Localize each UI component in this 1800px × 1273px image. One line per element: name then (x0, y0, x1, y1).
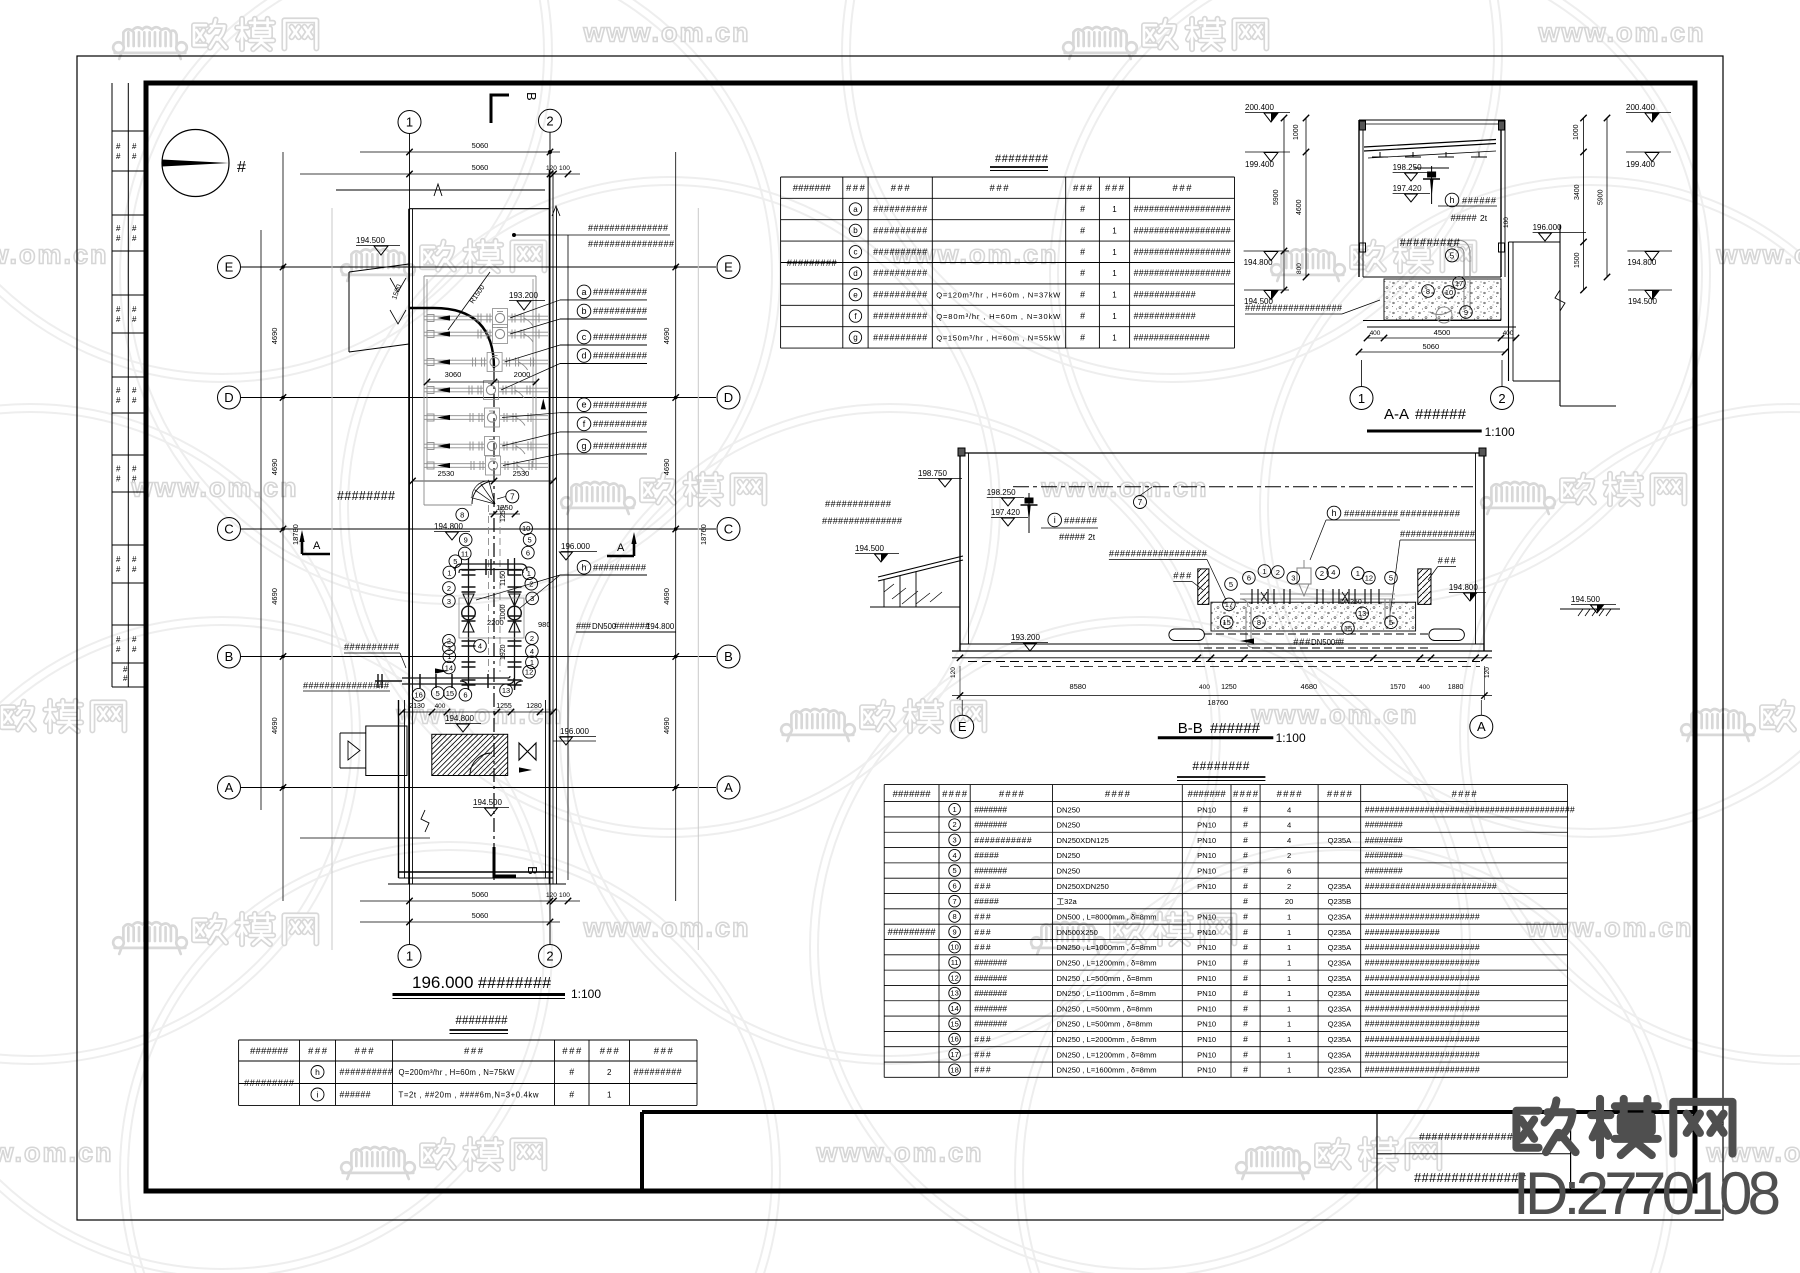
svg-text:###: ### (654, 1046, 674, 1057)
svg-text:4690: 4690 (270, 459, 279, 476)
svg-text:1250: 1250 (1221, 684, 1237, 691)
svg-text:4: 4 (1287, 836, 1291, 845)
svg-text:g: g (581, 441, 586, 451)
svg-text:#######################: ####################### (1365, 988, 1480, 998)
svg-text:PN10: PN10 (1197, 1004, 1216, 1013)
big watermark 欧模网 ID (1513, 1099, 1781, 1227)
svg-text:#: # (116, 315, 121, 324)
level 196.000 lower (553, 727, 596, 745)
svg-text:1: 1 (1287, 958, 1291, 967)
svg-text:2: 2 (953, 820, 957, 829)
pit wall anchor squares (427, 315, 434, 470)
discharge pipe lower (375, 668, 523, 690)
svg-text:h: h (315, 1067, 320, 1077)
svg-text:###########: ########### (1400, 509, 1461, 519)
svg-text:C: C (724, 522, 733, 537)
svg-text:194.500: 194.500 (855, 544, 884, 553)
svg-text:###: ### (1173, 571, 1192, 581)
svg-text:#: # (1243, 850, 1248, 860)
svg-text:8: 8 (1426, 287, 1430, 296)
svg-text:1255: 1255 (496, 703, 512, 710)
B-B left shed (822, 499, 963, 607)
svg-text:194.800: 194.800 (646, 622, 675, 631)
svg-text:################: ################ (1419, 1131, 1519, 1143)
svg-text:1280: 1280 (526, 703, 542, 710)
svg-text:196.000: 196.000 (412, 973, 473, 992)
svg-text:###############: ############### (1365, 927, 1440, 937)
svg-text:#: # (1080, 290, 1085, 300)
svg-text:################: ################ (303, 681, 390, 691)
svg-text:1: 1 (1287, 943, 1291, 952)
svg-text:Q235A: Q235A (1328, 1050, 1353, 1059)
svg-text:#: # (132, 224, 137, 233)
svg-text:196.000: 196.000 (561, 542, 590, 551)
svg-text:#: # (1243, 957, 1248, 967)
B-B ground levels right (1449, 583, 1620, 616)
svg-text:Q235A: Q235A (1328, 1066, 1353, 1075)
svg-text:1: 1 (1112, 226, 1117, 235)
svg-text:15: 15 (1223, 618, 1231, 627)
svg-text:#: # (132, 315, 137, 324)
svg-text:########: ######## (995, 153, 1049, 165)
svg-text:B-B: B-B (1178, 720, 1203, 737)
svg-text:4: 4 (1287, 805, 1291, 814)
svg-text:###: ### (891, 183, 911, 194)
svg-text:#######################: ####################### (1365, 1019, 1480, 1029)
section mark B top (491, 92, 539, 123)
svg-text:#: # (569, 1067, 574, 1077)
svg-text:##################: ################## (1245, 303, 1343, 313)
svg-text:D: D (224, 390, 233, 405)
svg-text:#######: ####### (974, 1019, 1007, 1029)
B-B sand band (1211, 602, 1416, 631)
svg-text:DN250 , L=2000mm , δ=8mm: DN250 , L=2000mm , δ=8mm (1057, 1035, 1157, 1044)
svg-text:#: # (132, 396, 137, 405)
svg-text:4: 4 (953, 851, 957, 860)
svg-text:DN250 , L=1100mm , δ=8mm: DN250 , L=1100mm , δ=8mm (1057, 989, 1156, 998)
svg-text:#######################: ####################### (1365, 1034, 1480, 1044)
svg-text:Q235A: Q235A (1328, 928, 1353, 937)
tank walls below (388, 700, 566, 884)
svg-text:##############################: ########################################… (1365, 804, 1575, 814)
svg-text:###: ### (1438, 556, 1457, 566)
A-A labels right (1573, 103, 1672, 306)
svg-text:193.200: 193.200 (1011, 633, 1040, 642)
svg-text:15: 15 (950, 1019, 958, 1028)
svg-text:c: c (582, 332, 587, 342)
svg-text:##############: ############## (1400, 529, 1476, 539)
svg-text:######: ###### (1210, 720, 1261, 737)
svg-text:www.om.cn: www.om.cn (1715, 239, 1800, 269)
svg-text:2530: 2530 (513, 469, 530, 478)
label outlet pipe level (303, 681, 390, 692)
section mark B bottom (494, 847, 540, 876)
svg-text:120: 120 (950, 667, 957, 678)
svg-text:#####: ##### (1451, 213, 1478, 223)
inner pump pit rectangle (424, 276, 536, 470)
svg-text:##########: ########## (593, 332, 648, 342)
svg-text:#: # (1243, 927, 1248, 937)
svg-text:1880: 1880 (1448, 684, 1464, 691)
svg-text:DN250 , L=500mm , δ=8mm: DN250 , L=500mm , δ=8mm (1057, 1020, 1153, 1029)
svg-text:5060: 5060 (1422, 342, 1439, 351)
svg-text:###: ### (974, 912, 991, 922)
svg-text:5: 5 (1389, 618, 1393, 627)
svg-text:8: 8 (953, 912, 957, 921)
svg-text:1000: 1000 (1573, 124, 1580, 140)
svg-text:#: # (1243, 1049, 1248, 1059)
svg-text:PN10: PN10 (1197, 836, 1216, 845)
B-B numbered bubbles (1220, 565, 1397, 635)
svg-text:www.om.cn: www.om.cn (1040, 472, 1208, 502)
svg-text:PN10: PN10 (1197, 928, 1216, 937)
svg-text:B: B (724, 649, 733, 664)
svg-text:###############: ############### (1414, 1170, 1527, 1185)
svg-text:5: 5 (953, 866, 957, 875)
svg-text:6: 6 (1247, 574, 1251, 583)
svg-text:1: 1 (1112, 333, 1117, 342)
svg-text:2: 2 (1287, 882, 1291, 891)
svg-text:1: 1 (1358, 391, 1365, 406)
svg-text:PN10: PN10 (1197, 1066, 1216, 1075)
B-B bottom dim chain (950, 655, 1492, 707)
svg-text:4680: 4680 (1301, 682, 1318, 691)
svg-text:1: 1 (1112, 269, 1117, 278)
svg-text:Q235A: Q235A (1328, 1020, 1353, 1029)
svg-text:6: 6 (1287, 867, 1291, 876)
svg-text:##########: ########## (593, 441, 648, 451)
B-B fill label (1109, 549, 1226, 601)
svg-text:#: # (116, 396, 121, 405)
svg-text:1: 1 (1287, 974, 1291, 983)
svg-text:#########: ######### (244, 1078, 295, 1089)
svg-text:Q235A: Q235A (1328, 974, 1353, 983)
numbered bubbles middle (412, 508, 538, 701)
svg-text:4: 4 (530, 647, 534, 656)
svg-text:h: h (1331, 508, 1336, 518)
svg-text:5060: 5060 (472, 163, 489, 172)
svg-text:Q235A: Q235A (1328, 958, 1353, 967)
svg-text:2: 2 (546, 113, 553, 128)
svg-text:www.om.cn: www.om.cn (582, 912, 750, 942)
svg-text:11: 11 (951, 958, 959, 967)
inner thick drawing border (146, 83, 1695, 1191)
svg-text:b: b (581, 306, 586, 316)
svg-text:###: ### (576, 621, 592, 631)
svg-text:#####: ##### (974, 896, 999, 906)
svg-text:##########: ########## (873, 311, 927, 321)
svg-text:Q235B: Q235B (1328, 897, 1352, 906)
svg-text:8: 8 (460, 510, 464, 519)
pumps a-g assemblies (424, 309, 548, 476)
svg-text:1: 1 (1287, 1035, 1291, 1044)
svg-text:DN500X250: DN500X250 (1057, 928, 1098, 937)
svg-text:##########: ########## (873, 225, 927, 235)
svg-text:4690: 4690 (270, 588, 279, 605)
svg-text:15: 15 (446, 689, 454, 698)
svg-text:1000: 1000 (1293, 124, 1300, 140)
svg-text:10: 10 (1445, 288, 1453, 297)
svg-text:12: 12 (1365, 574, 1373, 583)
svg-text:##########: ########## (1344, 509, 1399, 519)
svg-text:2: 2 (1498, 391, 1505, 406)
svg-text:###: ### (355, 1046, 375, 1057)
svg-text:400: 400 (1199, 684, 1210, 691)
svg-text:########: ######## (1365, 820, 1403, 830)
plan left dimension chain (261, 152, 332, 950)
DN500 dashed header lower plan (489, 505, 501, 672)
svg-text:#########: ######### (888, 927, 937, 938)
svg-text:#: # (132, 475, 137, 484)
svg-text:4690: 4690 (270, 717, 279, 734)
label h pumps (476, 561, 647, 609)
svg-text:#####: ##### (1059, 532, 1086, 542)
plan walls (336, 170, 560, 884)
svg-text:B: B (525, 866, 540, 875)
svg-text:###################: ################### (1134, 247, 1231, 257)
svg-text:12: 12 (525, 668, 533, 677)
B-B pump assembly (1240, 560, 1395, 648)
svg-text:#: # (1243, 973, 1248, 983)
svg-text:#######################: ####################### (1365, 1065, 1480, 1075)
plan top dimension lines 5060 (300, 141, 580, 177)
svg-text:PN10: PN10 (1197, 867, 1216, 876)
label new DN500 (576, 621, 676, 632)
svg-text:Q=80m³/hr , H=60m , N=30kW: Q=80m³/hr , H=60m , N=30kW (936, 312, 1061, 321)
svg-text:#######################: ####################### (1365, 957, 1480, 967)
svg-text:PN10: PN10 (1197, 1050, 1216, 1059)
svg-text:100: 100 (559, 165, 570, 172)
svg-text:4500: 4500 (1434, 328, 1451, 337)
svg-text:1570: 1570 (1390, 684, 1406, 691)
svg-text:18760: 18760 (699, 524, 708, 545)
svg-text:#: # (1080, 247, 1085, 257)
svg-text:5: 5 (1389, 574, 1393, 583)
svg-text:6: 6 (953, 881, 957, 890)
svg-text:####: #### (1233, 789, 1259, 800)
svg-text:DN500: DN500 (1311, 638, 1336, 647)
svg-text:###: ### (974, 1049, 991, 1059)
svg-text:B: B (225, 649, 234, 664)
svg-text:DN250 , L=1000mm , δ=8mm: DN250 , L=1000mm , δ=8mm (1057, 943, 1157, 952)
level 194.500 bottom (473, 798, 509, 816)
svg-text:100: 100 (559, 892, 570, 899)
svg-text:www.om.cn: www.om.cn (582, 17, 750, 47)
svg-text:4600: 4600 (1296, 199, 1303, 215)
svg-text:######: ###### (1462, 196, 1497, 206)
svg-text:14: 14 (445, 663, 453, 672)
level 194.800 and 196.000 at C (434, 522, 597, 560)
svg-text:#: # (116, 645, 121, 654)
svg-text:1:100: 1:100 (1485, 425, 1515, 439)
svg-text:########: ######## (1192, 759, 1249, 773)
svg-text:A: A (617, 542, 625, 554)
svg-text:#########: ######### (787, 258, 838, 269)
svg-text:193.200: 193.200 (509, 291, 538, 300)
section A-A (1359, 120, 1516, 327)
svg-text:5: 5 (1450, 251, 1455, 260)
svg-text:A: A (1477, 719, 1486, 734)
svg-text:196.000: 196.000 (1533, 223, 1562, 232)
svg-text:199.400: 199.400 (1626, 160, 1655, 169)
svg-text:########: ######## (478, 975, 551, 992)
svg-text:194.500: 194.500 (1571, 595, 1600, 604)
svg-text:6: 6 (526, 548, 530, 557)
svg-text:DN250: DN250 (1057, 867, 1081, 876)
svg-text:9: 9 (464, 535, 468, 544)
svg-text:#: # (132, 234, 137, 243)
svg-text:194.800: 194.800 (1449, 583, 1478, 592)
svg-text:DN250 , L=500mm , δ=8mm: DN250 , L=500mm , δ=8mm (1057, 974, 1153, 983)
svg-text:PN10: PN10 (1197, 1035, 1216, 1044)
svg-text:1250: 1250 (500, 506, 507, 522)
svg-text:17: 17 (1455, 279, 1463, 288)
plan view: grid lines (218, 256, 741, 800)
svg-text:#: # (1243, 942, 1248, 952)
svg-text:#: # (1080, 332, 1085, 342)
svg-text:#: # (116, 305, 121, 314)
svg-text:###: ### (600, 1046, 620, 1057)
svg-text:#: # (1243, 988, 1248, 998)
svg-text:###: ### (1073, 183, 1093, 194)
svg-text:2: 2 (546, 949, 553, 964)
svg-text:############: ############ (825, 499, 892, 509)
svg-text:######: ###### (340, 1090, 371, 1100)
svg-text:###: ### (974, 1065, 991, 1075)
svg-text:www.om.cn: www.om.cn (1525, 912, 1693, 942)
svg-text:PN10: PN10 (1197, 974, 1216, 983)
svg-text:#: # (132, 635, 137, 644)
svg-text:###############: ############### (822, 516, 903, 526)
svg-text:#: # (237, 159, 246, 176)
svg-text:#: # (123, 665, 128, 674)
table 原有设备表 (781, 153, 1235, 348)
svg-text:199.400: 199.400 (1245, 160, 1274, 169)
svg-text:14: 14 (950, 1004, 958, 1013)
svg-text:www.om.cn: www.om.cn (130, 472, 298, 502)
svg-text:##: ## (1335, 637, 1345, 647)
svg-text:#: # (132, 565, 137, 574)
svg-text:4: 4 (1331, 568, 1335, 577)
svg-text:4690: 4690 (662, 459, 671, 476)
elec control label plan (512, 223, 674, 249)
svg-text:PN10: PN10 (1197, 913, 1216, 922)
butterfly valve symbol (519, 743, 536, 773)
svg-text:1: 1 (1287, 1004, 1291, 1013)
svg-text:#: # (1243, 835, 1248, 845)
svg-text:#: # (1080, 268, 1085, 278)
svg-text:#######################: ####################### (1365, 973, 1480, 983)
svg-text:##########: ########## (873, 332, 927, 342)
svg-text:400: 400 (1503, 330, 1514, 337)
svg-text:197.420: 197.420 (991, 508, 1020, 517)
svg-text:###: ### (464, 1046, 484, 1057)
main DN500 curve R1500 (409, 272, 494, 880)
svg-text:#: # (1243, 820, 1248, 830)
svg-text:#: # (116, 465, 121, 474)
svg-text:2000: 2000 (514, 370, 531, 379)
svg-text:Q=200m³/hr , H=60m , N=75kW: Q=200m³/hr , H=60m , N=75kW (399, 1068, 516, 1077)
svg-text:200.400: 200.400 (1626, 103, 1655, 112)
svg-text:1: 1 (1287, 1020, 1291, 1029)
svg-text:#: # (132, 386, 137, 395)
svg-text:DN250 , L=1200mm , δ=8mm: DN250 , L=1200mm , δ=8mm (1057, 1050, 1157, 1059)
section mark A left (299, 530, 330, 554)
svg-text:#########: ######### (1400, 237, 1461, 249)
svg-text:www.om.cn: www.om.cn (0, 1137, 114, 1167)
svg-text:1: 1 (1112, 312, 1117, 321)
svg-text:120: 120 (1484, 667, 1491, 678)
svg-text:###################: ################### (1134, 268, 1231, 278)
svg-text:4690: 4690 (662, 588, 671, 605)
break marks bottom (300, 810, 430, 838)
svg-text:120: 120 (546, 165, 557, 172)
title block (642, 1112, 1695, 1191)
leader labels a-g (501, 285, 648, 465)
svg-text:##########: ########## (593, 419, 648, 429)
svg-text:e: e (581, 400, 586, 410)
svg-text:5: 5 (1229, 580, 1233, 589)
svg-text:120: 120 (546, 892, 557, 899)
svg-text:########: ######## (337, 489, 395, 503)
svg-text:9: 9 (953, 927, 957, 936)
svg-text:E: E (958, 719, 967, 734)
B-B pipe capsules (1169, 629, 1465, 641)
svg-text:7: 7 (1138, 498, 1143, 507)
svg-text:########: ######## (1365, 866, 1403, 876)
svg-text:8: 8 (1257, 618, 1261, 627)
svg-text:c: c (853, 248, 857, 257)
svg-text:E: E (225, 260, 234, 275)
svg-text:194.800: 194.800 (434, 522, 463, 531)
svg-text:#######: ####### (1188, 789, 1227, 800)
svg-text:#######: ####### (974, 804, 1007, 814)
svg-text:#: # (1243, 912, 1248, 922)
svg-text:200.400: 200.400 (1245, 103, 1274, 112)
svg-text:2: 2 (530, 634, 534, 643)
svg-text:#: # (1243, 881, 1248, 891)
svg-text:###: ### (974, 881, 991, 891)
svg-text:2t: 2t (1480, 213, 1488, 223)
svg-text:###: ### (974, 927, 991, 937)
svg-text:i: i (317, 1090, 319, 1100)
svg-text:DN250: DN250 (1057, 851, 1081, 860)
svg-text:1: 1 (406, 115, 413, 130)
svg-text:Q235A: Q235A (1328, 989, 1353, 998)
svg-text:PN10: PN10 (1197, 943, 1216, 952)
level 194.500 at E left (356, 236, 400, 255)
B-B DN500 pipe dashed (968, 634, 1480, 667)
svg-text:20: 20 (1285, 897, 1293, 906)
svg-text:######: ###### (1415, 406, 1467, 423)
B-B outlet label (1390, 509, 1476, 616)
svg-text:################: ################ (588, 239, 674, 249)
dims 3060 2000 2530 (409, 370, 556, 484)
svg-text:#######: ####### (974, 866, 1007, 876)
svg-text:g: g (853, 333, 857, 342)
svg-text:5: 5 (436, 689, 440, 698)
svg-text:####: #### (1452, 789, 1478, 800)
svg-text:Q235A: Q235A (1328, 1004, 1353, 1013)
rotated inner dims (487, 506, 551, 660)
svg-text:5060: 5060 (472, 890, 489, 899)
plan right dimension chain (568, 152, 708, 950)
svg-text:#: # (1243, 1065, 1248, 1075)
svg-text:PN10: PN10 (1197, 882, 1216, 891)
svg-text:###: ### (990, 183, 1010, 194)
svg-text:###################: ################### (1134, 225, 1231, 235)
hatched stair area (385, 734, 551, 775)
